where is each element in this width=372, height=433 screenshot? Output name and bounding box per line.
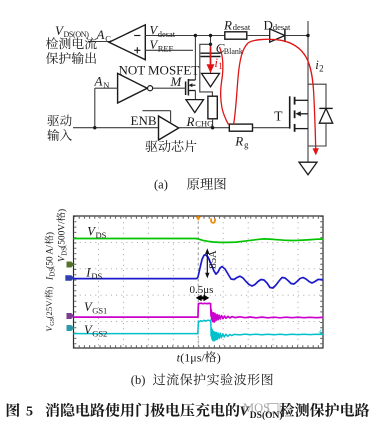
svg-text:A: A	[96, 27, 105, 42]
svg-text:): )	[56, 209, 67, 212]
svg-text:85A: 85A	[208, 250, 219, 269]
svg-text:R: R	[223, 18, 232, 33]
svg-text:NOT: NOT	[119, 63, 146, 78]
svg-text:1: 1	[218, 61, 223, 71]
svg-text:R: R	[186, 114, 195, 129]
svg-text:g: g	[244, 140, 249, 150]
svg-text:DS: DS	[96, 230, 107, 240]
svg-text:(a): (a)	[154, 178, 168, 192]
svg-text:DS(ON): DS(ON)	[64, 30, 90, 39]
svg-text:T: T	[274, 109, 283, 124]
svg-text:REF: REF	[158, 44, 174, 54]
svg-text:DS: DS	[91, 271, 102, 281]
svg-text:(1μs/: (1μs/	[180, 350, 205, 364]
svg-text:GS1: GS1	[92, 306, 107, 316]
svg-text:GS2: GS2	[92, 329, 107, 339]
svg-text:): )	[44, 286, 54, 289]
svg-text:desat: desat	[158, 29, 176, 39]
svg-text:A: A	[94, 74, 103, 89]
svg-text:): )	[217, 350, 221, 364]
svg-text:5: 5	[26, 405, 33, 420]
svg-text:(b): (b)	[131, 373, 146, 387]
svg-text:M: M	[170, 74, 183, 89]
svg-text:CHG: CHG	[195, 118, 213, 128]
svg-text:0.5μs: 0.5μs	[190, 284, 214, 296]
svg-text:N: N	[103, 80, 109, 90]
svg-text:(500V/: (500V/	[56, 221, 67, 248]
svg-text:Blank: Blank	[224, 47, 243, 56]
svg-text:DS(ON): DS(ON)	[250, 410, 283, 421]
svg-text:(50 A/: (50 A/	[45, 245, 56, 269]
svg-text:ENB: ENB	[131, 113, 157, 128]
svg-text:R: R	[234, 133, 243, 148]
svg-text:I: I	[85, 265, 91, 279]
svg-text:desat: desat	[233, 22, 251, 32]
svg-text:(25V/: (25V/	[44, 297, 54, 318]
svg-text:C: C	[105, 33, 111, 43]
svg-text:D: D	[264, 18, 273, 33]
svg-text:desat: desat	[273, 22, 291, 32]
svg-text:): )	[45, 232, 56, 235]
svg-text:2: 2	[319, 63, 324, 73]
